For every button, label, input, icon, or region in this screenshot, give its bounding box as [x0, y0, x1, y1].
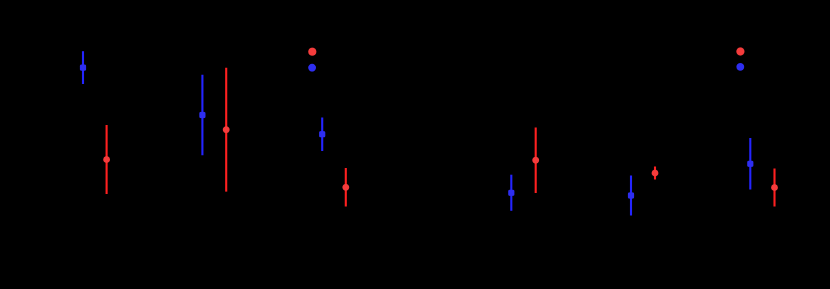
legend right blue marker	[736, 63, 744, 71]
errorbar red series point 2 (left panel)	[223, 68, 230, 192]
errorbar blue series point 2 (right panel)	[628, 176, 634, 216]
errorbar blue series point 3 (right panel)	[747, 138, 753, 190]
legend left red marker	[308, 48, 316, 56]
errorbar blue series point 1 (left panel)	[80, 51, 86, 84]
errorbar blue series point 3 (left panel)	[319, 118, 325, 152]
errorbar blue series point 1 (right panel)	[508, 175, 514, 211]
errorbar red series point 1 (left panel)	[103, 125, 110, 194]
legend right red marker	[736, 47, 744, 55]
errorbar blue series point 2 (left panel)	[199, 75, 205, 155]
errorbar red series point 3 (right panel)	[771, 169, 778, 207]
errorbar red series point 3 (left panel)	[342, 168, 349, 207]
errorbar red series point 2 (right panel)	[652, 167, 659, 180]
errorbar red series point 1 (right panel)	[532, 128, 539, 194]
legend left blue marker	[308, 64, 316, 72]
